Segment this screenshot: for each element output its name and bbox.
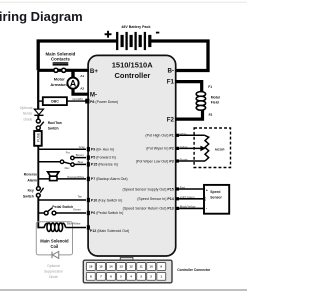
wire P3 purple <box>179 160 205 162</box>
wire: OBC to P8 <box>67 100 86 102</box>
wire speed sensor black/yellow <box>179 207 204 209</box>
svg-text:P8 (Power Down): P8 (Power Down) <box>90 100 118 104</box>
wire speed sensor red <box>179 188 204 190</box>
svg-text:Blue/White: Blue/White <box>67 222 81 226</box>
svg-text:Optional: Optional <box>47 264 60 268</box>
wire P10 tan <box>38 199 86 201</box>
main solenoid coil L2 <box>44 223 66 231</box>
pin P15 right tab <box>176 187 179 190</box>
wire: battery + lead and left bus <box>38 41 116 70</box>
speed sensor box <box>204 185 229 214</box>
wire P1 white <box>179 134 205 136</box>
battery 48V pack <box>117 32 150 50</box>
bottom rule <box>0 289 247 291</box>
svg-text:Contacts: Contacts <box>51 57 70 62</box>
svg-text:Reverse: Reverse <box>24 172 37 176</box>
svg-text:Sensor: Sensor <box>210 196 222 200</box>
svg-text:Field: Field <box>211 101 219 105</box>
svg-text:B-: B- <box>167 67 174 74</box>
wire: bus B+ node down to OBC level <box>37 70 39 109</box>
svg-text:Run/Tow: Run/Tow <box>48 121 62 125</box>
wire: bus diode to run/tow <box>37 116 39 119</box>
svg-text:Yellow: Yellow <box>180 145 189 149</box>
svg-text:P15 (Reverse In): P15 (Reverse In) <box>91 163 118 167</box>
wire P9 gray <box>38 148 86 150</box>
svg-text:Black/Yellow: Black/Yellow <box>180 205 197 209</box>
svg-text:F2: F2 <box>209 113 213 117</box>
svg-text:-: - <box>206 206 207 210</box>
svg-text:Optional: Optional <box>20 106 33 110</box>
controller connector <box>83 257 172 282</box>
MCOR dashed box <box>194 128 230 168</box>
connector pins row 16-9 <box>86 263 165 271</box>
wire P7 orange/white <box>38 178 86 180</box>
wire: bus corner into solenoid coil <box>38 227 44 229</box>
svg-text:OBC: OBC <box>51 100 59 104</box>
svg-text:1510/1510A: 1510/1510A <box>112 61 153 70</box>
svg-text:Rev: Rev <box>65 166 71 170</box>
svg-text:Main Solenoid: Main Solenoid <box>40 238 69 243</box>
svg-text:A2: A2 <box>80 86 84 90</box>
svg-text:FUSE: FUSE <box>36 132 40 142</box>
svg-text:Light Green: Light Green <box>180 195 195 199</box>
wire: bus key switch to solenoid <box>37 198 39 229</box>
forward/reverse switch S2 <box>38 156 74 166</box>
pin P5 tab <box>87 155 90 159</box>
pin P6 tab <box>87 211 90 215</box>
wire P5 brown <box>75 157 87 159</box>
svg-text:Switch: Switch <box>48 127 59 131</box>
svg-text:48V Battery Pack: 48V Battery Pack <box>121 25 150 29</box>
svg-text:Armature: Armature <box>50 82 69 87</box>
svg-text:+: + <box>206 189 208 193</box>
svg-text:Coil: Coil <box>50 244 58 249</box>
pin P3 tab <box>176 159 179 162</box>
svg-text:Sense: Sense <box>23 112 33 116</box>
svg-text:Red: Red <box>180 185 186 189</box>
svg-text:Blue: Blue <box>78 160 84 164</box>
main solenoid contacts <box>53 63 69 72</box>
battery plus sign <box>105 31 112 38</box>
wire: main contact feed to B+ <box>38 69 89 72</box>
pin P2 tab <box>176 147 179 150</box>
svg-text:Green: Green <box>73 208 81 212</box>
wire P2 yellow with wiper arrow <box>179 147 201 149</box>
svg-text:Controller Connector: Controller Connector <box>177 268 211 272</box>
wire: F2 from motor field <box>175 108 203 119</box>
svg-text:For: For <box>66 150 70 154</box>
svg-text:Alarm: Alarm <box>27 178 37 182</box>
svg-text:10: 10 <box>149 265 153 269</box>
svg-text:15: 15 <box>99 265 103 269</box>
svg-text:MCOR: MCOR <box>215 148 225 152</box>
svg-text:Suppression: Suppression <box>44 269 63 273</box>
svg-text:16: 16 <box>89 265 93 269</box>
svg-text:A1: A1 <box>80 74 84 78</box>
svg-text:12: 12 <box>129 265 133 269</box>
svg-text:A: A <box>70 78 77 88</box>
svg-text:(Pot Wiper Low Out) P3: (Pot Wiper Low Out) P3 <box>136 159 174 163</box>
wire speed sensor light green <box>179 198 204 200</box>
pin P1 tab <box>176 134 179 137</box>
svg-text:Speed: Speed <box>210 190 220 194</box>
OBC box <box>43 97 67 105</box>
motor field coil L1 <box>196 92 205 111</box>
wire: armature drop from B+ feed <box>71 70 74 77</box>
svg-text:F1: F1 <box>208 85 212 89</box>
svg-text:M-: M- <box>90 92 97 99</box>
svg-text:White: White <box>180 132 188 136</box>
svg-text:14: 14 <box>109 265 113 269</box>
wire: F1 to motor field <box>175 82 202 93</box>
wire P12 blue/white <box>66 227 86 229</box>
pedal switch S4 <box>38 208 56 215</box>
svg-text:Orange/White: Orange/White <box>67 175 85 179</box>
svg-text:(Speed Sensor In) P14: (Speed Sensor In) P14 <box>137 197 174 201</box>
key switch S3 <box>36 187 43 198</box>
svg-text:Diode: Diode <box>49 275 58 279</box>
svg-text:O/P: O/P <box>203 196 207 201</box>
connector pins row 8-1 <box>86 272 165 280</box>
suppressor diode D2 <box>52 251 59 258</box>
svg-text:Purple: Purple <box>180 158 189 162</box>
svg-text:Motor: Motor <box>211 95 221 99</box>
wire: lower bus fuse to key switch <box>37 146 39 187</box>
pin P12 tab <box>87 225 90 229</box>
potentiometer R1 <box>205 135 209 161</box>
svg-text:Switch: Switch <box>23 195 34 199</box>
wire: OBC feed from bus <box>38 100 43 102</box>
svg-text:Wiring Diagram: Wiring Diagram <box>0 9 83 24</box>
svg-text:P7 (Backup Alarm Out): P7 (Backup Alarm Out) <box>91 177 128 181</box>
reverse alarm SP1 <box>48 172 59 181</box>
svg-text:Diode: Diode <box>24 117 33 121</box>
svg-text:B+: B+ <box>90 68 98 75</box>
battery minus sign <box>156 32 159 34</box>
svg-text:Motor: Motor <box>54 77 66 82</box>
pin P7 tab <box>87 177 90 181</box>
svg-text:11: 11 <box>140 265 144 269</box>
svg-text:F1: F1 <box>167 79 175 86</box>
wire: armature to M- <box>73 89 89 95</box>
svg-text:Controller: Controller <box>114 71 150 80</box>
wire P15 blue <box>75 163 86 165</box>
wire P6 green <box>56 212 86 214</box>
svg-text:P12 (Main Solenoid Out): P12 (Main Solenoid Out) <box>90 229 129 233</box>
fuse F1 <box>34 131 42 146</box>
top hairline <box>0 1 247 3</box>
svg-text:P5 (Forward In): P5 (Forward In) <box>91 156 116 160</box>
run/tow switch S1 <box>36 119 43 130</box>
svg-text:F2: F2 <box>167 116 175 123</box>
svg-text:P10 (Key Switch In): P10 (Key Switch In) <box>91 198 123 202</box>
pin P14 tab <box>176 197 179 200</box>
pin P9 tab <box>87 147 90 151</box>
svg-text:Tan: Tan <box>77 195 82 199</box>
svg-text:Key: Key <box>28 188 34 192</box>
optional sense diode D1 <box>34 109 43 115</box>
svg-text:(Pot Wiper In) P2: (Pot Wiper In) P2 <box>146 147 174 151</box>
svg-text:Main Solenoid: Main Solenoid <box>46 51 76 56</box>
svg-text:Grn/Wht: Grn/Wht <box>72 97 83 101</box>
svg-text:(Speed Sensor Return Out) P13: (Speed Sensor Return Out) P13 <box>123 207 174 211</box>
svg-text:Brown: Brown <box>76 153 84 157</box>
svg-text:Pedal Switch: Pedal Switch <box>52 205 73 209</box>
controller box U1 <box>88 55 176 256</box>
pin P10 tab <box>87 198 90 202</box>
pin P13 tab <box>176 207 179 210</box>
wire: battery - lead, right drop to B- <box>150 41 208 71</box>
svg-text:P9 (B+ Aux In): P9 (B+ Aux In) <box>91 148 114 152</box>
pin P15 tab <box>87 162 90 166</box>
svg-text:13: 13 <box>119 265 123 269</box>
svg-text:(Speed Sensor Supply Out) P15: (Speed Sensor Supply Out) P15 <box>122 187 173 191</box>
motor armature M1 <box>67 78 78 89</box>
svg-text:P6 (Pedal Switch In): P6 (Pedal Switch In) <box>91 211 124 215</box>
svg-text:Gray: Gray <box>79 145 86 149</box>
suppressor loop gray box <box>36 222 72 255</box>
pin P8 tab <box>85 99 89 104</box>
svg-text:(Pot High Out) P1: (Pot High Out) P1 <box>145 134 173 138</box>
